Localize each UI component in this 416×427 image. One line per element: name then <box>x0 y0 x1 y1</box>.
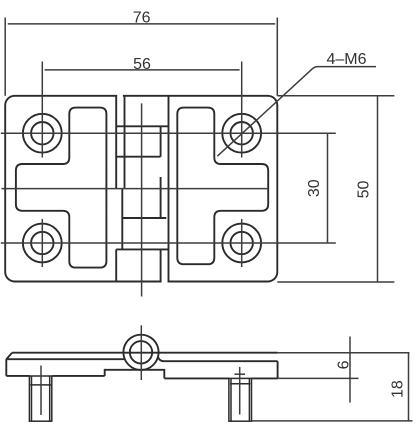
left leaf inner contour <box>16 108 107 268</box>
dimension 50 <box>277 96 394 282</box>
hole centerline row bottom <box>1 242 336 244</box>
svg-text:4–M6: 4–M6 <box>326 51 366 68</box>
svg-text:76: 76 <box>133 10 151 27</box>
knuckle right leaf cut edge <box>161 96 169 282</box>
pin centerline <box>141 103 143 296</box>
dimension 30 <box>327 133 329 243</box>
left stud centerline <box>40 366 42 416</box>
mid horizontal line <box>2 188 269 190</box>
svg-text:30: 30 <box>306 179 323 197</box>
hole top-right <box>222 114 261 153</box>
right stud centerline tick <box>235 373 246 375</box>
side view right stud <box>229 378 252 421</box>
knuckle left leaf cut edge <box>116 96 124 282</box>
right leaf inner contour <box>177 108 268 265</box>
hole vertical centerline bottom-right <box>241 219 243 267</box>
hole top-left <box>23 114 62 153</box>
svg-text:56: 56 <box>133 56 151 73</box>
hole vertical centerline top-left <box>41 62 43 158</box>
side view left stud <box>29 376 51 421</box>
side view knuckle barrel <box>123 335 158 370</box>
side view pin centerline <box>140 325 142 380</box>
hole bottom-right <box>222 224 261 263</box>
label 4-M6 leader <box>217 67 376 157</box>
right stud centerline <box>239 367 241 415</box>
knuckle division lines <box>116 126 168 249</box>
dimension 76 <box>5 18 277 96</box>
hole vertical centerline bottom-left <box>41 219 43 267</box>
side view left slab <box>6 353 277 379</box>
side view right leaf <box>158 356 278 378</box>
knuckle top and bottom edge gaps <box>117 96 167 282</box>
hole centerline row top <box>1 132 336 134</box>
hole bottom-left <box>23 224 62 263</box>
hole vertical centerline top-right <box>241 62 243 158</box>
svg-text:6: 6 <box>335 360 352 369</box>
plate outline top view <box>5 96 277 282</box>
svg-text:50: 50 <box>355 181 372 199</box>
dimension 18 <box>252 353 413 421</box>
svg-text:18: 18 <box>389 380 406 398</box>
dimension 56 <box>45 69 240 71</box>
dimension 6 <box>278 337 410 403</box>
